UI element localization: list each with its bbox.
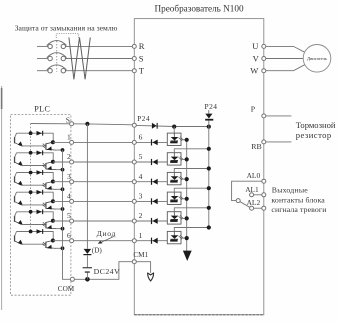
optocoupler U5 box — [167, 153, 181, 165]
node: collector bus junction — [185, 138, 189, 142]
PLC channel 4 phototransistor — [45, 202, 46, 208]
node: collector bus junction — [185, 177, 189, 181]
wire: opto 2 out — [181, 217, 187, 219]
wire: supply line R left lead — [37, 45, 48, 47]
diode input 3 — [152, 199, 157, 205]
PLC channel 4 collector node — [51, 199, 55, 203]
svg-text:4: 4 — [67, 192, 71, 201]
opto U2 LED — [173, 212, 175, 216]
PLC channel 6 phototransistor — [45, 242, 46, 248]
svg-text:контакты блока: контакты блока — [271, 195, 325, 204]
node: emitter bus junction — [61, 207, 65, 211]
node: anode/bus junction — [207, 147, 211, 151]
wire: PLC terminal 1 to converter input — [74, 141, 133, 143]
svg-text:2: 2 — [67, 152, 71, 161]
PLC channel 1 left transistor Q — [15, 133, 17, 137]
terminal COM — [70, 277, 74, 281]
terminal 5 (PLC) — [70, 219, 74, 223]
svg-text:V: V — [253, 53, 260, 63]
svg-text:CM1: CM1 — [133, 251, 148, 259]
wire: input 1 row — [136, 240, 167, 242]
wire: PLC S row to P24 terminal — [31, 124, 133, 125]
wire: PLC channel 6 to terminal — [53, 240, 70, 242]
wire: supply line T left lead — [37, 70, 48, 72]
opto U5 LED — [173, 153, 175, 157]
wire: W to motor — [266, 65, 305, 71]
PLC channel 6 lower wire — [21, 243, 46, 245]
svg-text:1: 1 — [67, 133, 71, 142]
PLC channel 4 lower wire — [21, 204, 46, 206]
motor M1 — [303, 45, 331, 73]
svg-text:6: 6 — [139, 133, 143, 142]
diode input 4 — [152, 179, 157, 185]
wire: input 6 row — [136, 141, 167, 143]
battery DC24V — [83, 267, 92, 268]
opto U1 LED — [173, 231, 175, 235]
optocoupler U2 box — [167, 212, 181, 224]
optocoupler U6 box — [167, 133, 181, 145]
terminal CM1 — [132, 260, 136, 264]
svg-text:2: 2 — [139, 211, 143, 220]
node: emitter bus junction — [61, 227, 65, 231]
PLC channel 6 diode — [37, 229, 43, 234]
diode on P24 bus — [205, 114, 212, 119]
wire: emitter to common bus — [56, 149, 62, 151]
wire: emitter to common bus — [56, 208, 62, 210]
PLC channel 3 phototransistor — [45, 183, 46, 189]
node: emitter bus junction — [61, 187, 65, 191]
terminal S — [132, 57, 136, 61]
wire: PLC channel 2 to terminal — [53, 161, 70, 163]
opto U4 LED — [173, 172, 175, 176]
terminal 2 (converter input) — [132, 219, 136, 223]
wire: opto 4 anode feed — [174, 169, 209, 173]
svg-text:R: R — [139, 41, 145, 51]
svg-text:W: W — [250, 66, 259, 76]
terminal R — [132, 44, 136, 48]
PLC channel 5 lower wire — [21, 224, 46, 226]
arrow to common (filled) — [183, 251, 192, 261]
node: emitter bus junction — [61, 168, 65, 172]
PLC channel 5 left transistor Q — [15, 212, 17, 216]
svg-text:DC24V: DC24V — [94, 267, 121, 276]
svg-text:Тормозной: Тормозной — [296, 120, 336, 130]
terminal 4 (PLC) — [70, 199, 74, 203]
wire: opto collector bus — [186, 140, 188, 251]
terminal T — [132, 69, 136, 73]
converter enclosure box N100 — [134, 19, 263, 315]
diode input 2 — [152, 218, 157, 224]
PLC channel 4 node on dashed bus — [29, 190, 33, 194]
wire: opto 2 anode feed — [174, 208, 209, 212]
wire: opto 5 anode feed — [174, 149, 209, 153]
PLC channel 5 top wire — [17, 212, 54, 221]
PLC channel 2 lower wire — [21, 165, 46, 167]
wire: emitter to common bus — [56, 188, 62, 190]
PLC channel 3 node on dashed bus — [29, 171, 33, 175]
terminal 6 (converter input) — [132, 140, 136, 144]
node: anode/bus junction — [207, 225, 211, 229]
opto U4 photo element — [170, 181, 177, 183]
breaker pole contact circles line T — [48, 69, 52, 73]
svg-text:T: T — [139, 66, 145, 76]
PLC channel 3 diode — [37, 170, 43, 175]
wire: supply line S left lead — [37, 58, 48, 60]
terminal 4 (converter input) — [132, 180, 136, 184]
wire: PLC terminal 6 to converter input — [74, 240, 133, 242]
PLC channel 1 phototransistor — [45, 143, 46, 149]
contact point AL1 — [250, 193, 254, 197]
wire: emitter to common bus — [56, 228, 62, 230]
svg-text:Выходные: Выходные — [272, 185, 308, 194]
wire: AL0 loop — [232, 181, 262, 200]
node: collector bus junction — [185, 236, 189, 240]
wire: supply line S to terminal S — [65, 58, 133, 60]
wire: supply line T to terminal T — [65, 70, 133, 72]
node: anode/bus junction — [207, 206, 211, 210]
PLC internal collector bus (dashed) — [30, 124, 32, 232]
wire: emitter to common bus — [56, 169, 62, 171]
terminal AL0 — [262, 179, 266, 183]
relay contact blade — [240, 202, 250, 208]
svg-text:COM: COM — [58, 285, 75, 293]
terminal 3 (PLC) — [70, 180, 74, 184]
PLC enclosure (dashed) — [11, 115, 71, 296]
svg-text:P24: P24 — [205, 102, 218, 111]
svg-text:AL0: AL0 — [247, 171, 261, 180]
PLC channel 5 node on dashed bus — [29, 210, 33, 214]
svg-text:5: 5 — [139, 152, 143, 161]
terminal U — [262, 44, 266, 48]
wire: input 4 row — [136, 181, 167, 183]
converter box bottom edge (darker) — [134, 314, 263, 316]
wire: PLC terminal 5 to converter input — [74, 220, 133, 222]
contact point AL2 — [250, 206, 254, 210]
wire: PLC terminal 4 to converter input — [74, 200, 133, 202]
wire: U to motor — [266, 46, 305, 52]
relay contact common pole circle — [236, 199, 240, 203]
PLC channel 2 diode — [37, 151, 43, 156]
opto U5 photo element — [170, 161, 177, 163]
node: P24/anode-chain junction — [172, 125, 176, 129]
wire: AL2 stub — [254, 207, 262, 209]
svg-text:S: S — [139, 53, 144, 63]
svg-text:RB: RB — [251, 142, 261, 151]
wire: PLC channel 1 to terminal — [53, 141, 70, 143]
svg-text:5: 5 — [67, 211, 71, 220]
svg-text:PLC: PLC — [34, 105, 50, 114]
PLC channel 1 collector node — [51, 140, 55, 144]
diode D — [84, 249, 92, 254]
opto U3 LED — [173, 192, 175, 196]
breaker pole arc line T — [47, 65, 67, 70]
wire: opto 4 out — [181, 178, 187, 180]
terminal 1 (converter input) — [132, 239, 136, 243]
svg-text:P: P — [251, 105, 256, 114]
svg-text:3: 3 — [67, 172, 71, 181]
opto U1 photo element — [170, 240, 177, 242]
node: junction S-row / DC24V branch — [85, 122, 89, 126]
svg-text:AL1: AL1 — [245, 185, 259, 194]
svg-text:(D): (D) — [92, 247, 103, 255]
node: emitter bus junction — [61, 148, 65, 152]
PLC channel 2 top wire — [17, 153, 54, 162]
diode on P24 row — [152, 123, 157, 129]
svg-text:AL2: AL2 — [247, 198, 261, 207]
PLC channel 2 node on dashed bus — [29, 151, 33, 155]
terminal 2 (PLC) — [70, 160, 74, 164]
wire: COM row — [74, 262, 132, 280]
optocoupler U1 box — [167, 231, 181, 243]
node: collector bus junction — [185, 216, 189, 220]
PLC channel 5 collector node — [51, 219, 55, 223]
scan artifact line (edge) — [1, 86, 3, 310]
PLC channel 4 left transistor Q — [15, 192, 17, 196]
PLC channel 6 node on dashed bus — [29, 230, 33, 234]
node: battery minus junction — [85, 277, 90, 282]
wire: anode drop to opto 6 — [173, 127, 175, 134]
terminal S (PLC) — [70, 122, 74, 126]
svg-text:U: U — [252, 41, 259, 51]
wire: opto 3 anode feed — [174, 188, 209, 192]
svg-text:P24: P24 — [137, 115, 150, 123]
PLC channel 4 top wire — [17, 192, 54, 201]
svg-text:1: 1 — [139, 231, 143, 240]
wire: emitter to common bus — [56, 247, 62, 249]
node: collector bus junction — [185, 197, 189, 201]
optocoupler U4 box — [167, 172, 181, 184]
PLC channel 5 diode — [37, 210, 43, 215]
wire: V to motor — [266, 58, 304, 60]
PLC channel 3 top wire — [17, 173, 54, 182]
PLC channel 3 lower wire — [21, 184, 46, 186]
PLC channel 3 collector node — [51, 180, 55, 184]
opto U6 LED — [173, 133, 175, 137]
svg-text:Преобразователь N100: Преобразователь N100 — [155, 3, 244, 13]
PLC channel 5 phototransistor — [45, 222, 46, 228]
wire: opto 6 out — [181, 139, 187, 141]
breaker pole contact circles line S — [48, 56, 52, 60]
svg-text:резистор: резистор — [296, 130, 332, 140]
svg-text:4: 4 — [139, 172, 143, 181]
diode input 1 — [152, 238, 157, 244]
PLC channel 1 lower wire — [21, 145, 46, 147]
wire: supply line R to terminal R — [65, 45, 133, 47]
PLC channel 2 collector node — [51, 160, 55, 164]
wire: CM1 to arrow — [136, 262, 150, 273]
svg-text:3: 3 — [139, 192, 143, 201]
node: emitter bus junction — [61, 246, 65, 250]
wire: input 3 row — [136, 200, 167, 202]
terminal 5 (converter input) — [132, 160, 136, 164]
diode input 6 — [152, 140, 157, 146]
breaker pole arc line R — [47, 41, 67, 46]
PLC channel 6 top wire — [17, 232, 54, 241]
PLC channel 6 left transistor Q — [15, 232, 17, 236]
wire: input 5 row — [136, 161, 167, 163]
wire: opto 1 anode feed — [174, 228, 209, 232]
terminal AL2 — [262, 206, 266, 210]
optocoupler U3 box — [167, 192, 181, 204]
wire: AL1 stub — [254, 194, 262, 196]
node: collector bus junction — [185, 157, 189, 161]
wire: opto 1 out — [181, 237, 187, 239]
breaker mechanical link (dashed) — [56, 41, 58, 72]
node: anode/bus junction — [207, 166, 211, 170]
wire: PLC terminal 3 to converter input — [74, 181, 133, 183]
breaker pole contact circles line R — [48, 44, 52, 48]
wire: P24 bus vertical — [208, 120, 210, 227]
breaker trip element (W zigzag) — [69, 37, 90, 79]
wire: opto 5 out — [181, 158, 187, 160]
svg-text:6: 6 — [67, 231, 71, 240]
PLC channel 1 node on dashed bus — [29, 131, 33, 135]
terminal P24 (converter) — [132, 123, 136, 127]
terminal P — [262, 114, 266, 118]
breaker pole arc line S — [47, 53, 67, 58]
PLC common emitter bus to COM — [63, 150, 71, 279]
terminal V — [262, 57, 266, 61]
opto U6 photo element — [170, 141, 177, 143]
wire: PLC channel 3 to terminal — [53, 181, 70, 183]
node: anode/bus junction — [207, 186, 211, 190]
wire: PLC terminal 2 to converter input — [74, 161, 133, 163]
wire: opto 3 out — [181, 198, 187, 200]
wire: P to brake resistor — [266, 115, 292, 117]
breaker dashed bracket — [56, 34, 78, 38]
hollow arrow (common) — [148, 273, 154, 281]
wire: RB to brake resistor — [266, 141, 292, 143]
terminal 3 (converter input) — [132, 199, 136, 203]
terminal 1 (PLC) — [70, 140, 74, 144]
PLC channel 2 left transistor Q — [15, 153, 17, 157]
PLC channel 2 phototransistor — [45, 163, 46, 169]
svg-text:S: S — [66, 116, 70, 125]
svg-text:сигнала тревоги: сигнала тревоги — [271, 205, 326, 214]
PLC channel 1 top wire — [17, 133, 54, 142]
wire: input 2 row — [136, 220, 167, 222]
PLC channel 1 diode — [37, 131, 43, 136]
terminal RB — [262, 140, 266, 144]
PLC channel 6 collector node — [51, 239, 55, 243]
terminal W — [262, 69, 266, 73]
wire: PLC channel 5 to terminal — [53, 220, 70, 222]
diode input 5 — [152, 159, 157, 165]
wire: P24 row — [136, 125, 209, 126]
node: P24/bus junction — [207, 125, 211, 129]
wire: PLC channel 4 to terminal — [53, 200, 70, 202]
wire: bus top stub — [208, 110, 210, 114]
terminal AL1 — [262, 193, 266, 197]
svg-text:Двигатель: Двигатель — [307, 56, 327, 61]
PLC channel 4 diode — [37, 190, 43, 195]
PLC channel 3 left transistor Q — [15, 173, 17, 177]
opto U2 photo element — [170, 220, 177, 222]
wire: DC24V branch vertical — [86, 124, 88, 249]
opto U3 photo element — [170, 200, 177, 202]
svg-text:Защита от замыкания на землю: Защита от замыкания на землю — [15, 24, 118, 33]
terminal 6 (PLC) — [70, 239, 74, 243]
